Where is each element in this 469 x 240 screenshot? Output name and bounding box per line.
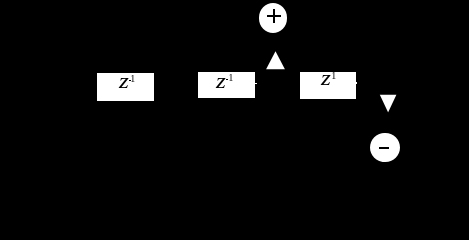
arrowhead up (wire into adder) bbox=[0, 0, 469, 166]
plus sign horizontal bar bbox=[267, 15, 282, 17]
delay block Z3 bbox=[300, 72, 356, 99]
label z of Z1 bbox=[119, 70, 129, 92]
minus sign bar bbox=[379, 147, 389, 149]
superscript 1 of Z3 bbox=[331, 72, 336, 82]
summing junction + (adder circle) bbox=[259, 3, 288, 33]
arrowhead tip at Z3 output (node) bbox=[356, 82, 357, 84]
label z of Z3 bbox=[321, 67, 331, 89]
plus sign vertical bar bbox=[273, 9, 275, 23]
arrowhead tip at Z2 output (node) bbox=[255, 83, 256, 85]
delay block Z2 bbox=[198, 72, 255, 98]
superscript 1 of Z1 bbox=[130, 75, 135, 85]
arrowhead down (wire into subtractor) bbox=[0, 0, 469, 166]
subtractor junction - (circle) bbox=[370, 133, 399, 162]
superscript 1 of Z2 bbox=[228, 74, 233, 84]
delay block Z1 bbox=[97, 73, 154, 102]
superscript minus of Z1 bbox=[129, 80, 131, 81]
label z of Z2 bbox=[216, 70, 226, 92]
superscript minus of Z2 bbox=[226, 79, 228, 80]
